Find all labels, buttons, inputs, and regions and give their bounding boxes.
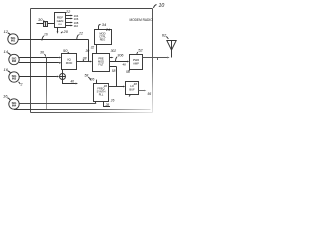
label 26b <box>110 99 115 103</box>
wire synth to buffer <box>109 86 126 88</box>
svg-text:FILT: FILT <box>98 63 104 67</box>
svg-text:BUF: BUF <box>129 87 135 91</box>
label 58b <box>112 69 116 73</box>
svg-text:46: 46 <box>104 84 108 88</box>
label 16 on wire <box>44 32 48 36</box>
svg-text:38: 38 <box>83 56 87 60</box>
svg-text:IN2: IN2 <box>12 59 17 63</box>
label 26 leader <box>96 80 98 84</box>
label 14 <box>4 49 9 54</box>
label 300 <box>86 49 90 53</box>
source circle 14 (signal input 2) <box>9 54 19 64</box>
svg-text:56: 56 <box>148 92 152 96</box>
label 20 leader <box>61 32 63 33</box>
label 30 leader <box>43 21 45 23</box>
label 28 <box>105 103 110 107</box>
wire source12 right <box>18 39 88 41</box>
crystal 30 <box>44 22 48 27</box>
svg-text:PLL: PLL <box>99 93 104 97</box>
label 54 leader <box>129 70 130 72</box>
synthesizer box 26 <box>94 84 109 102</box>
svg-text:26: 26 <box>110 99 115 103</box>
label 306 leader <box>116 57 117 61</box>
label 10 leader <box>154 5 157 9</box>
synth bottom stub <box>104 102 111 107</box>
control box 24 <box>95 30 112 45</box>
svg-text:52: 52 <box>138 48 143 53</box>
label 22b on wire <box>78 31 83 35</box>
label clock 3 <box>74 21 79 25</box>
label 56 <box>148 92 152 96</box>
mixer output wire <box>63 80 79 85</box>
wire modulator output 38 <box>77 61 93 63</box>
label 50 <box>63 48 68 53</box>
svg-text:32: 32 <box>91 46 95 50</box>
svg-text:58: 58 <box>85 73 89 77</box>
antenna 62 <box>167 41 176 58</box>
label 302 <box>111 49 117 53</box>
svg-text:22: 22 <box>78 31 83 35</box>
wire source18 lower (bus) <box>14 109 151 111</box>
modulator box 50 <box>62 54 77 70</box>
oscillator box 22 (reference generator) <box>55 13 66 28</box>
label 16s leader <box>8 71 11 73</box>
svg-text:GEN: GEN <box>57 19 64 23</box>
wire source18 to synth <box>19 101 96 103</box>
label 52 leader <box>136 52 139 54</box>
label 22 <box>65 10 71 14</box>
label 22b leader <box>77 35 79 39</box>
clock output arrow 1 <box>66 15 74 17</box>
svg-text:34: 34 <box>102 22 107 27</box>
svg-text:30: 30 <box>86 49 90 53</box>
label 24 <box>105 28 110 32</box>
svg-text:58: 58 <box>112 69 116 73</box>
label 62 <box>162 32 167 37</box>
label 18 <box>3 94 8 99</box>
label 306 <box>117 53 124 57</box>
svg-text:AMP: AMP <box>133 61 139 65</box>
label 38 <box>83 56 87 60</box>
label 38 leader <box>82 60 85 62</box>
vertical tap wire <box>46 58 48 110</box>
label 34 <box>102 22 107 27</box>
wire ctrl to premod <box>96 45 98 54</box>
svg-text:MOD: MOD <box>66 61 73 65</box>
label 48 <box>134 82 138 86</box>
svg-text:10: 10 <box>159 3 165 9</box>
svg-text:22: 22 <box>65 10 71 14</box>
svg-text:MODEM RADIO: MODEM RADIO <box>130 18 154 22</box>
label 36 leader <box>45 54 46 57</box>
svg-text:IN4: IN4 <box>12 104 17 108</box>
label 46 <box>104 84 108 88</box>
label 58a <box>85 73 89 77</box>
enclosure box 10 (modem/radio unit) <box>31 9 153 113</box>
label 12 leader <box>8 33 11 35</box>
label 62 leader <box>166 37 168 39</box>
svg-text:IN1: IN1 <box>11 39 16 43</box>
clock output arrow 3 <box>66 22 74 24</box>
premodulation box 44 <box>93 54 110 72</box>
svg-text:IN3: IN3 <box>12 77 17 81</box>
mixer 40 <box>60 74 66 80</box>
svg-text:26: 26 <box>89 77 94 81</box>
label 40 <box>71 80 75 84</box>
svg-text:306: 306 <box>117 53 124 57</box>
label 18 leader <box>7 98 10 100</box>
svg-text:302: 302 <box>111 49 117 53</box>
svg-text:50: 50 <box>63 48 68 53</box>
label 54 below PA <box>126 70 130 74</box>
buffer bottom tick <box>129 95 130 97</box>
wire source14 lower <box>19 62 62 64</box>
label 28a tick <box>19 82 21 84</box>
svg-text:36: 36 <box>40 51 44 55</box>
svg-text:46: 46 <box>123 63 127 67</box>
wire modulator to mixer <box>62 70 64 74</box>
label clock 1 <box>74 14 79 18</box>
label clock 4 <box>74 24 79 28</box>
label clock 2 <box>74 17 79 21</box>
label 36 <box>40 51 44 55</box>
label 16 leader <box>42 36 44 41</box>
label 32 <box>91 46 95 50</box>
label 46a <box>123 63 127 67</box>
label 26 <box>89 77 94 81</box>
label 10 <box>159 3 165 9</box>
clock output arrow 2 <box>66 18 74 20</box>
label MODEM RADIO <box>130 18 154 22</box>
label 50 leader <box>68 52 69 53</box>
source circle 12 (signal input 1) <box>8 34 18 44</box>
clock output arrow 4 <box>66 25 74 27</box>
label 58a leader <box>88 77 91 81</box>
wire down to premod input <box>88 40 90 62</box>
premod lo stub <box>110 67 117 87</box>
source circle 18 (signal input 4) <box>9 99 19 109</box>
label 30 <box>38 17 43 22</box>
svg-text:110: 110 <box>74 24 79 28</box>
svg-text:CLK: CLK <box>58 24 63 26</box>
wire source16 to mixer <box>19 76 59 78</box>
buffer output wire <box>139 90 147 92</box>
wire crystal to oscillator <box>37 23 55 25</box>
label 34 leader <box>99 24 101 29</box>
wire premod to PA <box>110 61 130 63</box>
wire PA to antenna <box>143 57 170 59</box>
label 14 leader <box>8 53 11 55</box>
svg-text:30: 30 <box>38 17 43 22</box>
svg-text:28: 28 <box>105 103 110 107</box>
svg-text:16: 16 <box>44 32 48 36</box>
wire source14 upper <box>19 57 61 59</box>
svg-text:2: 2 <box>20 83 23 87</box>
premod aux output stub <box>110 57 114 59</box>
svg-text:40: 40 <box>71 80 75 84</box>
junction stub 60 <box>157 58 159 61</box>
svg-text:24: 24 <box>105 28 110 32</box>
buffer box 48 <box>126 82 139 95</box>
svg-text:REG: REG <box>100 38 106 42</box>
label 16s <box>4 67 9 72</box>
label 12 <box>4 29 9 34</box>
oscillator down output 20 <box>57 28 59 34</box>
svg-text:20: 20 <box>63 29 69 34</box>
label 20 <box>63 29 69 34</box>
source circle 16 (signal input 3) <box>9 72 19 82</box>
PA box 52 <box>130 55 143 70</box>
label 52 <box>138 48 143 53</box>
svg-text:48: 48 <box>134 82 138 86</box>
